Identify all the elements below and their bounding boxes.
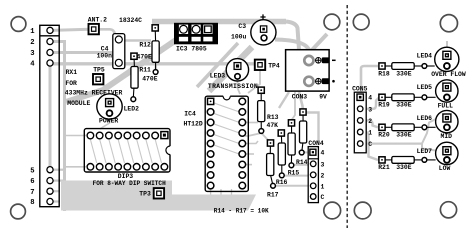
resistor R21 330E: [378, 157, 427, 172]
svg-text:DIP3: DIP3: [118, 173, 134, 180]
svg-text:R11: R11: [139, 66, 151, 73]
DIP3 top pin 6: [133, 132, 140, 139]
svg-text:R15: R15: [288, 169, 300, 176]
DIP3 top pin 7: [143, 132, 150, 139]
DIP3 top pin 4: [115, 132, 122, 139]
wire lead R21 to LED7: [427, 159, 436, 161]
IC4 left pin 6: [207, 151, 214, 158]
mounting hole bottom-right: [440, 202, 456, 218]
IC4 left pin 8: [207, 172, 214, 179]
DIP3 bottom pin 11: [96, 164, 103, 171]
svg-text:8: 8: [30, 199, 34, 207]
svg-text:R19: R19: [378, 102, 390, 109]
svg-text:R16: R16: [276, 179, 288, 186]
connector CON1 8-pin header outline: [40, 25, 59, 206]
connector CON3 9V battery: [286, 50, 336, 101]
DIP3 bottom pin 10: [87, 164, 94, 171]
DIP3 top pin 9 square pad: [161, 132, 168, 139]
antenna pad ANT.2: [88, 17, 107, 35]
svg-text:IC3: IC3: [176, 45, 188, 52]
wire lead R18 to LED4: [427, 65, 435, 67]
DIP3 top pin 8: [152, 132, 159, 139]
svg-text:ANT.2: ANT.2: [88, 17, 107, 24]
IC4 left pin 7: [207, 161, 214, 168]
IC4 left pin 2: [207, 109, 214, 116]
DIP switch socket DIP3: [84, 129, 171, 172]
svg-text:MID: MID: [441, 133, 453, 140]
test point TP4: [255, 60, 280, 70]
module RX1 receiver text block: [65, 69, 123, 107]
CON4 pin 4 square pad: [310, 149, 316, 155]
resistor R15 10K: [288, 120, 300, 177]
IC4 right pin 17: [239, 109, 246, 116]
DIP3 bottom pin 15: [133, 164, 140, 171]
CON5 pin 2: [357, 118, 363, 124]
resistor R18 330E: [378, 63, 427, 78]
svg-text:3: 3: [321, 161, 325, 168]
capacitor C3 100u electrolytic: [231, 14, 276, 45]
svg-text:LED3: LED3: [210, 73, 226, 80]
IC4 left pin 5: [207, 140, 214, 147]
svg-text:R14 - R17 = 10K: R14 - R17 = 10K: [214, 208, 269, 215]
resistor R19 330E: [378, 94, 427, 109]
test point TP3: [139, 188, 164, 198]
mounting hole bottom-center-left: [324, 202, 341, 219]
IC4 right pin 15: [239, 130, 246, 137]
IC U-IC4 HT12D decoder DIP-18: [205, 95, 248, 192]
svg-text:C: C: [321, 194, 325, 201]
svg-text:CON4: CON4: [308, 140, 324, 147]
IC4 left pin 3: [207, 119, 214, 126]
svg-text:R13: R13: [267, 114, 279, 121]
LED LED4 OVER FLOW indicator: [417, 47, 466, 78]
svg-text:R18: R18: [378, 70, 390, 77]
DIP3 bottom pin 12: [106, 164, 113, 171]
DIP3 top pin 3: [106, 132, 113, 139]
svg-text:C4: C4: [101, 45, 109, 52]
wire copper traces left board: [50, 22, 327, 212]
svg-text:MODULE: MODULE: [67, 100, 90, 107]
LED LED7 LOW indicator: [417, 142, 458, 172]
connector CON1 pin 3: [47, 49, 53, 55]
DIP3 top pin 1: [87, 132, 94, 139]
DIP3 bottom pin 16: [143, 164, 150, 171]
IC4 right pin 14: [239, 140, 246, 147]
svg-text:LOW: LOW: [439, 165, 451, 172]
DIP3 labels: [93, 173, 166, 187]
test point TP5: [93, 67, 105, 85]
svg-text:R21: R21: [378, 164, 390, 171]
connector CON1 pin 1: [47, 27, 53, 33]
svg-text:330E: 330E: [396, 164, 412, 171]
svg-text:470E: 470E: [137, 53, 153, 60]
wire board split dashed line: [346, 5, 348, 228]
voltage regulator IC3 7805: [174, 23, 218, 53]
svg-text:100n: 100n: [97, 53, 113, 60]
svg-text:2: 2: [368, 118, 372, 125]
CON4 pin C: [310, 194, 316, 200]
wire ground pour bottom left board: [61, 181, 256, 211]
CON4 labels: [308, 140, 324, 201]
IC4 pin 1 square pad: [208, 98, 214, 104]
svg-text:1: 1: [368, 130, 372, 137]
svg-text:100u: 100u: [231, 34, 247, 41]
svg-text:RX1: RX1: [66, 69, 78, 76]
connector CON1 pin number labels: [30, 28, 35, 207]
svg-text:47K: 47K: [267, 122, 279, 129]
svg-text:3: 3: [368, 106, 372, 113]
svg-text:6: 6: [30, 178, 34, 186]
svg-text:9V: 9V: [319, 93, 327, 100]
svg-text:4: 4: [368, 95, 372, 102]
wire lead R20 to LED6: [427, 126, 436, 128]
svg-text:470E: 470E: [142, 75, 158, 82]
svg-text:1: 1: [30, 28, 35, 36]
svg-text:R20: R20: [378, 132, 390, 139]
svg-text:C: C: [368, 141, 372, 148]
DIP3 top pin 5: [124, 132, 131, 139]
svg-text:CON3: CON3: [292, 93, 308, 100]
resistor R20 330E: [378, 124, 427, 139]
IC4 right pin 12: [239, 161, 246, 168]
LED LED5 FULL indicator: [417, 80, 458, 110]
svg-text:OVER FLOW: OVER FLOW: [431, 71, 466, 78]
connector CON1 pin 4: [47, 60, 53, 66]
svg-text:LED7: LED7: [417, 148, 433, 155]
svg-text:TP4: TP4: [268, 62, 280, 69]
CON5 pin 4 square pad: [357, 94, 363, 100]
svg-text:4: 4: [321, 150, 325, 157]
mounting hole bottom-center-right: [354, 202, 371, 219]
svg-text:3: 3: [30, 50, 34, 58]
resistor R13 47K: [258, 87, 279, 133]
svg-text:LED5: LED5: [417, 84, 433, 91]
IC4 right pin 13: [239, 151, 246, 158]
CON4 pin 2: [310, 172, 316, 178]
IC4 left pin 9: [207, 182, 214, 189]
CON5 pin 3: [357, 106, 363, 112]
svg-text:LED6: LED6: [417, 115, 433, 122]
connector CON1 pin 7: [47, 188, 53, 194]
svg-text:C3: C3: [238, 23, 246, 30]
wire thin traces inside DIP3: [90, 140, 161, 164]
DIP3 bottom pin 18: [161, 164, 168, 171]
mounting hole top-center-right: [353, 14, 369, 30]
svg-text:FOR 8-WAY DIP SWITCH: FOR 8-WAY DIP SWITCH: [93, 180, 166, 187]
IC4 right pin 18: [239, 98, 246, 105]
svg-text:R12: R12: [139, 42, 151, 49]
IC4 left pin 4: [207, 130, 214, 137]
svg-text:R14: R14: [296, 159, 308, 166]
resistor R16 10K: [276, 130, 288, 186]
svg-text:330E: 330E: [396, 132, 412, 139]
wire traces right board: [360, 41, 447, 160]
connector CON1 pin 5: [47, 167, 53, 173]
wire thin traces inside IC4: [214, 103, 240, 154]
IC4 labels: [184, 111, 203, 128]
svg-text:CON5: CON5: [352, 86, 368, 93]
svg-text:1: 1: [321, 183, 325, 190]
mounting hole bottom-left: [11, 204, 26, 219]
svg-text:TRANSMISSION: TRANSMISSION: [208, 83, 258, 90]
DIP3 bottom pin 17: [152, 164, 159, 171]
svg-text:18324C: 18324C: [119, 17, 142, 24]
svg-text:HT12D: HT12D: [184, 120, 203, 127]
DIP3 bottom pin 14: [124, 164, 131, 171]
CON4 pin 1: [310, 183, 316, 189]
resistor R14 10K: [296, 109, 308, 166]
LED LED3 transmission indicator: [208, 59, 258, 90]
IC4 right pin 10: [239, 182, 246, 189]
connector CON1 pin 6: [47, 178, 53, 184]
svg-text:IC4: IC4: [184, 111, 196, 118]
svg-text:7805: 7805: [191, 45, 207, 52]
svg-text:FULL: FULL: [438, 103, 454, 110]
svg-text:TP3: TP3: [139, 191, 151, 198]
svg-text:330E: 330E: [396, 70, 412, 77]
svg-text:FOR: FOR: [65, 80, 77, 87]
svg-text:LED4: LED4: [417, 52, 433, 59]
svg-text:R17: R17: [267, 192, 279, 199]
LED LED6 MID indicator: [417, 110, 458, 140]
IC4 right pin 16: [239, 119, 246, 126]
svg-text:2: 2: [321, 172, 325, 179]
capacitor C4 100n: [97, 34, 125, 69]
mounting hole top-right: [440, 15, 457, 32]
DIP3 bottom pin 13: [115, 164, 122, 171]
svg-text:4: 4: [30, 61, 35, 69]
resistor R12 470E: [137, 25, 160, 75]
LED LED2 power indicator: [97, 94, 139, 125]
resistor R17 10K: [267, 140, 279, 199]
svg-text:5: 5: [30, 167, 34, 175]
connector CON1 pin 2: [47, 38, 53, 44]
connector CON1 pin 8: [47, 198, 53, 204]
CON4 pin 3: [310, 161, 316, 167]
CON5 pin 1: [357, 129, 363, 135]
svg-text:POWER: POWER: [99, 118, 118, 125]
mounting hole top-center-left: [324, 14, 340, 30]
IC4 right pin 11: [239, 172, 246, 179]
CON5 labels: [352, 86, 372, 149]
svg-text:7: 7: [30, 189, 34, 197]
connector CON5 5-pin: [354, 92, 366, 153]
connector CON4 5-pin: [308, 147, 318, 203]
svg-text:TP5: TP5: [93, 67, 105, 74]
CON5 pin C: [357, 141, 363, 147]
DIP3 top pin 2: [96, 132, 103, 139]
svg-text:330E: 330E: [396, 102, 412, 109]
wire lead R19 to LED5: [427, 96, 436, 98]
svg-text:2: 2: [30, 39, 34, 47]
resistor R11 470E: [131, 53, 158, 101]
mounting hole top-left: [11, 17, 26, 32]
svg-text:LED2: LED2: [124, 105, 140, 112]
